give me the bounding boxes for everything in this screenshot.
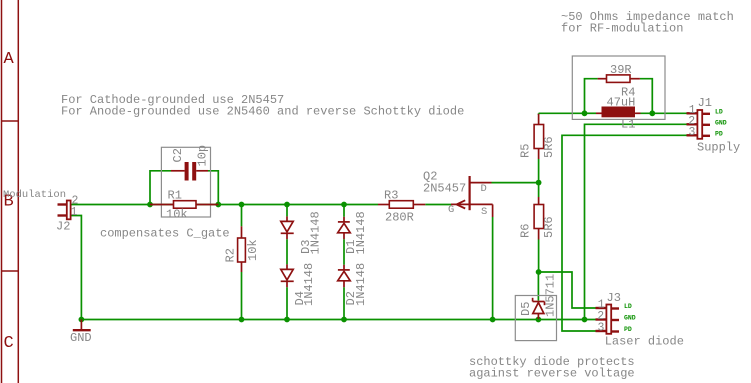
wire R6 bottom green	[538, 240, 540, 273]
svg-text:S: S	[481, 206, 487, 218]
svg-text:Laser diode: Laser diode	[605, 334, 684, 348]
svg-text:1N4148: 1N4148	[354, 211, 368, 254]
wire L1 left green	[585, 112, 597, 114]
connector J1	[687, 110, 711, 139]
svg-text:GND: GND	[715, 119, 727, 126]
junction L1 left	[582, 110, 588, 116]
svg-text:10k: 10k	[246, 239, 260, 261]
svg-text:2N5457: 2N5457	[423, 181, 466, 195]
resistor R2	[238, 226, 246, 272]
svg-text:R6: R6	[518, 224, 532, 238]
svg-text:LD: LD	[624, 303, 632, 310]
junction R6 bottom node	[536, 269, 542, 275]
svg-text:PD: PD	[715, 130, 723, 137]
svg-text:C: C	[4, 334, 14, 353]
svg-text:D5: D5	[519, 302, 533, 316]
wire bottom ground rail	[81, 319, 595, 321]
frame row divider B/C	[2, 270, 19, 272]
wire J2 pin1 down to ground rail	[71, 216, 82, 320]
svg-text:47uH: 47uH	[607, 96, 636, 110]
svg-text:3: 3	[598, 322, 605, 335]
svg-text:280R: 280R	[385, 210, 414, 224]
svg-text:39R: 39R	[610, 63, 632, 77]
svg-text:10k: 10k	[166, 208, 188, 222]
diode D3	[281, 216, 294, 239]
svg-text:10p: 10p	[196, 145, 210, 167]
svg-text:3: 3	[689, 126, 696, 139]
svg-text:J3: J3	[607, 291, 621, 305]
wire J1 pin2 GND down	[585, 124, 687, 319]
junction Q2 drain R5	[536, 180, 542, 186]
wire top rail J2 to R3	[71, 204, 378, 206]
junction C2R1 left	[147, 202, 153, 208]
svg-text:1N4148: 1N4148	[308, 211, 322, 254]
wire D2 bottom	[343, 287, 345, 319]
svg-text:L1: L1	[621, 118, 635, 132]
diode D2	[338, 265, 351, 287]
svg-text:Supply: Supply	[697, 140, 740, 154]
svg-text:LD: LD	[715, 108, 723, 115]
wire C2 left vertical	[150, 171, 171, 205]
svg-text:For Anode-grounded use 2N5460: For Anode-grounded use 2N5460 and revers…	[61, 105, 464, 119]
frame row divider A/B	[2, 120, 19, 122]
svg-text:compensates C_gate: compensates C_gate	[100, 227, 230, 241]
junction R2 top	[239, 202, 245, 208]
wire D1 top	[343, 205, 345, 217]
svg-text:C2: C2	[171, 148, 185, 162]
svg-text:R1: R1	[168, 188, 182, 202]
wire D3 top	[286, 205, 288, 217]
wire R6 node down to D5	[537, 272, 539, 301]
resistor R5	[534, 114, 544, 159]
diode D1	[338, 217, 351, 239]
junction D2 bottom	[341, 317, 347, 323]
transistor Q2 JFET	[451, 176, 493, 217]
junction D5 anode rail	[536, 317, 542, 323]
svg-text:R2: R2	[224, 248, 238, 262]
group box R4 L1	[572, 56, 665, 119]
wire J1 pin3 PD to J3 pin3	[562, 135, 687, 331]
wire R2 bottom	[241, 272, 243, 320]
wire Q2 source down to ground rail	[492, 217, 494, 320]
wire R4 left vertical	[585, 79, 598, 114]
svg-text:G: G	[448, 204, 454, 216]
svg-text:5R6: 5R6	[542, 216, 556, 238]
svg-text:Modulation: Modulation	[3, 189, 66, 201]
svg-text:PD: PD	[624, 326, 632, 333]
junction GND rail left	[79, 317, 85, 323]
wire L1 right green to J1 pin1	[641, 112, 687, 114]
diode D4	[281, 264, 294, 287]
svg-text:J2: J2	[56, 220, 70, 234]
svg-text:GND: GND	[70, 331, 92, 345]
junction L1 right	[649, 110, 655, 116]
resistor R4	[598, 75, 640, 83]
wire R5 top to L1 row	[539, 112, 585, 114]
svg-text:A: A	[4, 50, 15, 69]
wire R2 top	[241, 205, 243, 227]
svg-text:1N5711: 1N5711	[544, 274, 558, 317]
svg-text:D: D	[481, 183, 487, 195]
svg-text:J1: J1	[698, 96, 712, 110]
svg-text:1N4148: 1N4148	[302, 263, 316, 306]
wire D1 to D2	[343, 239, 345, 265]
wire D3 to D4	[286, 239, 288, 264]
diode D5 schottky	[533, 298, 545, 319]
wire D4 bottom	[286, 287, 288, 319]
junction D4 bottom	[284, 317, 290, 323]
junction Q2 source rail	[490, 317, 496, 323]
wire C2 right vertical	[208, 171, 218, 205]
junction C2R1 right	[215, 202, 221, 208]
connector J2	[58, 201, 71, 220]
svg-text:against reverse voltage: against reverse voltage	[469, 367, 635, 381]
frame left border line	[1, 0, 3, 383]
svg-text:1N4148: 1N4148	[354, 263, 368, 306]
ground symbol GND	[73, 320, 91, 331]
junction D3 top	[284, 202, 290, 208]
resistor R3	[378, 201, 425, 209]
junction GND line rail	[582, 317, 588, 323]
junction R2 bottom	[239, 317, 245, 323]
wire R5 bottom green	[538, 159, 540, 197]
svg-text:GND: GND	[624, 315, 636, 322]
resistor R1	[150, 201, 218, 209]
wire Q2 drain to R5 node	[492, 182, 539, 184]
svg-text:for RF-modulation: for RF-modulation	[561, 22, 683, 36]
group box D5	[515, 296, 556, 341]
wire R4 right vertical	[640, 79, 652, 114]
svg-text:5R6: 5R6	[542, 136, 556, 158]
svg-text:1: 1	[71, 206, 78, 219]
frame inner border line	[17, 0, 19, 383]
wire R3 to Q2 gate	[425, 204, 451, 206]
svg-text:R5: R5	[518, 144, 532, 158]
svg-text:R3: R3	[384, 188, 398, 202]
group box C2 R1	[161, 147, 210, 217]
capacitor C2	[171, 162, 208, 181]
wire R5 lead segments	[538, 113, 540, 115]
connector J3	[596, 305, 620, 334]
inductor L1	[596, 107, 641, 118]
resistor R6	[534, 197, 544, 240]
wire R6 node to J3 pin1	[539, 272, 596, 308]
junction D1 top	[341, 202, 347, 208]
